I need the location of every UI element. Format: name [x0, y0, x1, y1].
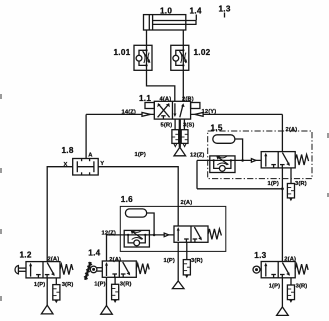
- label 1.01: [114, 48, 131, 57]
- wire 1(P) of 1.4: [106, 277, 108, 305]
- label 5(R): [161, 123, 173, 129]
- svg-text:1.2: 1.2: [20, 251, 32, 260]
- svg-text:2(A): 2(A): [181, 200, 193, 206]
- silencer 3(R) of 1.3: [287, 285, 294, 303]
- svg-text:1.01: 1.01: [114, 48, 131, 57]
- label 1(P) under 1.1: [135, 152, 146, 158]
- wire 12(Z) net of 1.5: [196, 160, 198, 188]
- wire port 3(S): [183, 119, 185, 130]
- svg-text:1(P): 1(P): [34, 282, 45, 288]
- svg-text:1.6: 1.6: [121, 195, 133, 204]
- wire cylinder left port to 1.01: [146, 30, 148, 45]
- wire 1.01 to port 4(A) of valve 1.1: [147, 70, 175, 101]
- label 2(A) of 1.5: [286, 127, 298, 133]
- label 3(R) of 1.4: [120, 282, 132, 288]
- wire cylinder right port to 1.02: [182, 30, 184, 45]
- wire shuttle A to pilot 14(Z): [85, 114, 87, 158]
- label 1.3: [254, 251, 266, 260]
- wire pilot 14(Z): [86, 113, 154, 117]
- pilot arrow 1.5: [251, 159, 255, 163]
- label 1(P) of 1.4: [94, 282, 105, 288]
- 3/2-way roller lever valve 1.4: [102, 261, 149, 277]
- label 1(P) of 1.3: [269, 284, 280, 290]
- label 4(A): [160, 97, 172, 103]
- one-way flow control 1.6: [124, 230, 174, 247]
- silencer 3(R) of 1.6: [183, 260, 190, 279]
- svg-text:1.0: 1.0: [160, 6, 172, 15]
- svg-text:3(R): 3(R): [191, 258, 203, 264]
- svg-text:2(A): 2(A): [284, 257, 296, 263]
- svg-text:2(A): 2(A): [286, 127, 298, 133]
- label 1(P) of 1.2: [34, 282, 45, 288]
- svg-text:3(R): 3(R): [295, 181, 307, 187]
- label 12(Z) for group 1.5: [190, 152, 204, 158]
- label 12(Z) of 1.6: [102, 230, 116, 236]
- label X: [64, 162, 68, 168]
- label 2(A) of 1.4: [109, 257, 121, 263]
- silencer 3(R) of 1.5: [287, 184, 294, 202]
- silencer on 3(S): [181, 130, 188, 147]
- label 3(S): [183, 123, 194, 129]
- wire 1.02 to port 2(B) of valve 1.1: [182, 70, 184, 101]
- svg-text:1.8: 1.8: [62, 146, 74, 155]
- push button of 1.2: [15, 266, 26, 274]
- roller lever of 1.4: [84, 262, 102, 280]
- 3/2-way push button valve 1.2: [26, 262, 73, 278]
- label 3(R) below 1.5: [295, 181, 307, 187]
- pilot box 12(Y) of 1.1: [191, 103, 200, 109]
- pilot arrow 1.6: [164, 233, 168, 237]
- svg-text:1.4: 1.4: [88, 248, 100, 257]
- label 3(R) of 1.3: [296, 284, 308, 290]
- label 1.1: [139, 94, 151, 103]
- wire 3(R) of 1.5: [290, 168, 292, 184]
- svg-text:4(A): 4(A): [160, 97, 172, 103]
- compressed air supply under 1.3: [277, 307, 289, 316]
- wire 1.6 output to shuttle Y: [98, 167, 178, 226]
- label 1.02: [194, 48, 211, 57]
- svg-text:1.3: 1.3: [254, 251, 266, 260]
- wire port 5(R): [174, 119, 176, 130]
- wire 3(R) of 1.6: [186, 242, 188, 259]
- wire 1.2 output to shuttle X: [47, 167, 72, 262]
- label 1.6: [121, 195, 133, 204]
- silencer 3(R) of 1.4: [112, 284, 119, 303]
- label 2(A) of 1.2: [48, 256, 60, 262]
- 3/2-way valve of 1.6: [174, 226, 221, 242]
- label 1.4 (position mark): [190, 6, 202, 20]
- label 1.5: [211, 123, 223, 132]
- wire 3(R) of 1.2: [55, 278, 57, 285]
- label 3(R) of 1.2: [62, 282, 74, 288]
- compressed air supply under 1.1: [174, 147, 186, 156]
- svg-text:1(P): 1(P): [269, 284, 280, 290]
- label 1(P) below 1.5: [268, 181, 279, 187]
- pilot box 14(Z) of 1.1: [145, 103, 154, 109]
- wire 1.4 output to 12(Z) of 1.6: [107, 235, 125, 261]
- label 2(B): [182, 97, 194, 103]
- label 2(A) of 1.3: [284, 257, 296, 263]
- label 1.3 (position mark): [219, 5, 231, 18]
- svg-text:12(Z): 12(Z): [102, 230, 116, 236]
- SECTION-EDGE: [0, 94, 329, 301]
- wire 1(P) of 1.6: [177, 242, 179, 281]
- label 2(A) of 1.6: [181, 200, 193, 206]
- wire reservoir to line 1.5: [235, 139, 244, 162]
- wire 1.3 output to 1(P) of 1.5: [281, 168, 284, 262]
- wire 3(R) of 1.4: [114, 277, 116, 284]
- svg-text:1(P): 1(P): [135, 152, 146, 158]
- svg-text:1(P): 1(P): [164, 258, 175, 264]
- svg-text:1(P): 1(P): [94, 282, 105, 288]
- label 3(R) below 1.6: [191, 258, 203, 264]
- timer group 1.5 frame: [208, 131, 312, 179]
- 3/2-way roller valve 1.3: [261, 262, 308, 278]
- svg-text:3(R): 3(R): [62, 282, 74, 288]
- svg-text:14(Z): 14(Z): [122, 109, 136, 115]
- svg-text:1.1: 1.1: [139, 94, 151, 103]
- flow control valve 1.01: [134, 45, 152, 70]
- air reservoir 1.6: [125, 209, 146, 217]
- label 1.8: [62, 146, 74, 155]
- svg-text:1.02: 1.02: [194, 48, 211, 57]
- 3/2-way valve of 1.5: [261, 152, 308, 168]
- svg-text:2(A): 2(A): [109, 257, 121, 263]
- label 1.4: [88, 248, 100, 257]
- svg-text:2(A): 2(A): [48, 256, 60, 262]
- wire port 1(P) of 1.1: [179, 119, 181, 147]
- svg-text:3(R): 3(R): [120, 282, 132, 288]
- silencer 3(R) of 1.2: [53, 285, 60, 304]
- wire reservoir to line 1.6: [147, 213, 156, 236]
- svg-text:12(Y): 12(Y): [202, 109, 217, 115]
- compressed air supply under 1.4: [101, 306, 113, 315]
- label 1.2: [20, 251, 32, 260]
- 5/2-way valve 1.1: [154, 101, 190, 119]
- roller of 1.3: [253, 266, 261, 273]
- svg-text:2(B): 2(B): [182, 97, 194, 103]
- compressed air supply under 1.6: [172, 281, 184, 289]
- svg-text:3(R): 3(R): [296, 284, 308, 290]
- svg-text:1.4: 1.4: [190, 6, 202, 15]
- label 1(P) below 1.6: [164, 258, 175, 264]
- label 14(Z): [122, 109, 136, 115]
- label Y: [100, 161, 104, 167]
- svg-text:5(R): 5(R): [161, 123, 173, 129]
- shuttle valve 1.8: [73, 159, 99, 176]
- cylinder 1.0: [144, 15, 197, 30]
- silencer on 5(R): [172, 130, 179, 147]
- wire 3(R) of 1.3: [290, 278, 292, 285]
- wire 1(P) of 1.2: [46, 278, 48, 305]
- wire 1(P) of 1.3: [281, 278, 283, 307]
- svg-text:1(P): 1(P): [268, 181, 279, 187]
- svg-text:1.5: 1.5: [211, 123, 223, 132]
- flow control valve 1.02: [171, 45, 189, 70]
- label 12(Y): [202, 109, 217, 115]
- svg-text:A: A: [88, 153, 93, 159]
- timer group 1.6 frame: [120, 206, 226, 251]
- compressed air supply under 1.2: [41, 305, 53, 314]
- label 1.0: [160, 6, 172, 15]
- svg-text:1.3: 1.3: [219, 5, 231, 14]
- wire supply to 1.5 junction: [197, 188, 282, 190]
- wire pilot 12(Y) from 1.5 output: [191, 113, 283, 152]
- svg-text:12(Z): 12(Z): [190, 152, 204, 158]
- label A: [88, 153, 93, 159]
- one-way flow control 1.5: [197, 156, 261, 173]
- air reservoir 1.5: [213, 135, 235, 144]
